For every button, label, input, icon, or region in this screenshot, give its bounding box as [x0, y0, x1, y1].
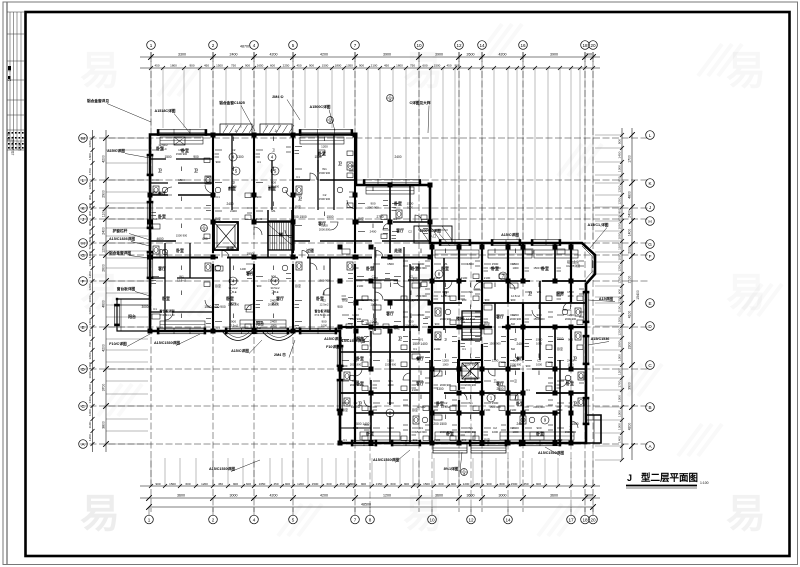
facade window mullion ticks: [174, 129, 546, 446]
svg-text:M1: M1: [419, 426, 423, 430]
svg-text:600: 600: [438, 482, 443, 486]
svg-text:12: 12: [456, 43, 462, 48]
svg-text:1350: 1350: [376, 482, 383, 486]
svg-text:1200: 1200: [618, 296, 622, 303]
svg-text:卧室: 卧室: [215, 283, 221, 288]
svg-text:卫: 卫: [298, 196, 302, 201]
svg-text:工程负责: 工程负责: [18, 141, 22, 151]
svg-text:3900: 3900: [383, 53, 391, 57]
svg-text:1500 900: 1500 900: [176, 234, 188, 238]
svg-text:8: 8: [369, 517, 372, 522]
svg-text:12.5m2: 12.5m2: [177, 279, 186, 283]
horizontal axis grid lines: [80, 138, 648, 444]
entry porch block B top: [414, 226, 452, 243]
svg-text:1500: 1500: [178, 178, 185, 182]
svg-text:600: 600: [185, 482, 190, 486]
svg-text:C2: C2: [444, 401, 448, 405]
svg-text:900: 900: [216, 160, 221, 164]
svg-text:2100: 2100: [628, 276, 632, 284]
svg-text:4800: 4800: [628, 191, 632, 199]
svg-text:900: 900: [485, 298, 490, 302]
svg-text:2M4 ⑪: 2M4 ⑪: [274, 352, 286, 357]
svg-text:1500: 1500: [169, 482, 176, 486]
svg-text:梯: 梯: [279, 232, 283, 237]
svg-text:C2: C2: [493, 426, 497, 430]
svg-text:4600: 4600: [102, 300, 106, 308]
svg-text:600: 600: [326, 482, 331, 486]
svg-text:A15/C1530详图: A15/C1530详图: [538, 450, 564, 455]
svg-text:C2: C2: [408, 230, 412, 234]
svg-text:W1: W1: [388, 379, 393, 383]
svg-text:450: 450: [296, 64, 301, 68]
svg-text:3900: 3900: [435, 53, 443, 57]
svg-text:上: 上: [234, 128, 237, 133]
svg-text:C1: C1: [393, 217, 397, 221]
svg-text:200 1500: 200 1500: [293, 215, 307, 219]
interior walls block B horizontal: [340, 281, 586, 428]
svg-text:M1: M1: [443, 262, 447, 266]
svg-text:A15/C1530详图: A15/C1530详图: [209, 466, 235, 471]
svg-text:450: 450: [273, 482, 278, 486]
svg-text:1500 900: 1500 900: [319, 197, 331, 201]
title block table: [7, 12, 25, 156]
svg-text:12.5m2: 12.5m2: [229, 279, 238, 283]
svg-text:1000: 1000: [618, 222, 622, 229]
top facade windows block A: [157, 124, 421, 186]
svg-text:卧室: 卧室: [366, 266, 374, 271]
svg-text:W1: W1: [468, 426, 473, 430]
svg-text:3600: 3600: [177, 494, 185, 498]
right lower bump room: [586, 415, 601, 443]
svg-text:1000: 1000: [536, 342, 542, 346]
svg-text:3600: 3600: [435, 494, 443, 498]
svg-text:900: 900: [536, 313, 541, 317]
svg-text:1000: 1000: [568, 294, 574, 298]
built-in counters and wardrobes: [160, 137, 578, 440]
svg-text:H: H: [81, 241, 84, 246]
svg-text:2000,900: 2000,900: [350, 363, 362, 367]
svg-text:2: 2: [212, 517, 215, 522]
elevator block A: [214, 222, 238, 250]
svg-text:600: 600: [270, 64, 275, 68]
svg-text:易: 易: [726, 492, 766, 536]
stair core block A: [268, 221, 294, 250]
svg-text:1000: 1000: [618, 253, 622, 260]
svg-text:铝合金窗C1825: 铝合金窗C1825: [219, 100, 245, 105]
svg-text:14: 14: [479, 43, 485, 48]
svg-text:8%1详图: 8%1详图: [444, 466, 459, 471]
svg-text:2000,900: 2000,900: [228, 303, 240, 307]
svg-text:2M4 ①: 2M4 ①: [272, 94, 284, 99]
svg-text:C1: C1: [526, 388, 530, 392]
svg-text:1400: 1400: [628, 229, 632, 237]
svg-text:4: 4: [253, 43, 256, 48]
svg-text:12.5m2: 12.5m2: [441, 405, 450, 409]
svg-text:1200: 1200: [88, 140, 92, 147]
svg-text:450: 450: [384, 64, 389, 68]
svg-text:1500: 1500: [571, 422, 578, 426]
svg-text:过道: 过道: [306, 248, 314, 253]
svg-text:900: 900: [558, 438, 563, 442]
svg-text:1200: 1200: [383, 494, 391, 498]
svg-text:1100: 1100: [88, 421, 92, 428]
svg-text:1100: 1100: [102, 210, 106, 217]
svg-text:300: 300: [586, 53, 592, 57]
svg-text:3800: 3800: [102, 421, 106, 429]
svg-text:A1518C详图: A1518C详图: [155, 108, 176, 113]
svg-text:M2: M2: [296, 326, 300, 330]
svg-text:1300: 1300: [618, 165, 622, 172]
svg-text:1500 1400 900: 1500 1400 900: [204, 305, 225, 309]
svg-text:1500 900: 1500 900: [565, 430, 577, 434]
svg-text:卧室: 卧室: [215, 216, 221, 221]
svg-text:C1825详图: C1825详图: [566, 264, 580, 268]
svg-text:1000: 1000: [492, 430, 498, 434]
svg-text:2900: 2900: [102, 190, 106, 198]
svg-text:1000: 1000: [443, 363, 449, 367]
svg-text:卧室: 卧室: [342, 297, 348, 302]
svg-text:2400: 2400: [270, 299, 277, 303]
svg-text:M1: M1: [271, 209, 275, 213]
svg-text:C1: C1: [296, 175, 300, 179]
svg-text:C2: C2: [569, 401, 573, 405]
svg-text:C1: C1: [216, 195, 220, 199]
side facade windows block B: [337, 291, 590, 425]
svg-text:1500: 1500: [314, 155, 321, 159]
svg-text:M2: M2: [257, 326, 261, 330]
svg-text:900: 900: [513, 359, 518, 363]
svg-text:1500: 1500: [352, 379, 359, 383]
svg-text:1500 900: 1500 900: [489, 266, 501, 270]
svg-text:1000: 1000: [88, 251, 92, 258]
svg-text:1200: 1200: [567, 313, 574, 317]
svg-text:1500: 1500: [492, 401, 499, 405]
svg-text:1000: 1000: [618, 232, 622, 239]
svg-text:M2: M2: [511, 322, 515, 326]
svg-text:3600: 3600: [550, 494, 558, 498]
svg-text:1300: 1300: [618, 395, 622, 402]
svg-text:4200: 4200: [320, 494, 328, 498]
svg-text:卫: 卫: [272, 148, 275, 152]
svg-text:1500 900: 1500 900: [465, 363, 477, 367]
svg-text:卫: 卫: [569, 426, 572, 430]
svg-text:1300: 1300: [88, 259, 92, 266]
svg-text:1500 900: 1500 900: [385, 363, 397, 367]
svg-text:48700: 48700: [240, 45, 250, 49]
svg-text:图: 图: [8, 69, 12, 72]
svg-text:900: 900: [88, 221, 92, 226]
svg-text:900: 900: [454, 64, 459, 68]
svg-text:1300: 1300: [88, 153, 92, 160]
svg-text:卧室: 卧室: [158, 214, 166, 219]
svg-text:2250: 2250: [283, 64, 290, 68]
svg-text:G: G: [648, 242, 652, 247]
svg-text:450: 450: [204, 64, 209, 68]
svg-text:16: 16: [520, 43, 526, 48]
svg-text:3700: 3700: [102, 384, 106, 392]
svg-text:M2: M2: [511, 347, 515, 351]
svg-text:900: 900: [343, 364, 348, 368]
interior walls block A horizontal: [150, 159, 430, 312]
svg-text:900: 900: [408, 320, 413, 324]
svg-text:1400: 1400: [618, 436, 622, 443]
svg-text:900: 900: [451, 482, 456, 486]
svg-text:卧室: 卧室: [295, 283, 301, 288]
svg-text:W1: W1: [537, 290, 542, 294]
svg-text:1650: 1650: [257, 64, 264, 68]
svg-text:餐厅: 餐厅: [157, 191, 166, 196]
annotation leader notes: [87, 94, 615, 472]
svg-text:1200: 1200: [387, 426, 394, 430]
svg-text:12: 12: [468, 517, 474, 522]
svg-text:型二层平面图: 型二层平面图: [641, 472, 698, 484]
svg-text:900: 900: [88, 211, 92, 216]
svg-text:30.5m2: 30.5m2: [271, 286, 280, 290]
svg-text:600: 600: [202, 237, 208, 241]
svg-text:600: 600: [246, 482, 251, 486]
interior walls block A vertical: [158, 134, 419, 332]
svg-text:3000: 3000: [499, 494, 507, 498]
svg-text:48500: 48500: [361, 503, 371, 507]
svg-text:31.2m2: 31.2m2: [229, 286, 238, 290]
svg-text:800: 800: [618, 176, 622, 181]
svg-text:750: 750: [410, 64, 415, 68]
svg-text:450: 450: [523, 482, 528, 486]
svg-text:1500: 1500: [326, 215, 333, 219]
svg-text:750: 750: [231, 64, 236, 68]
svg-text:1000: 1000: [371, 303, 377, 307]
svg-text:1500: 1500: [387, 359, 394, 363]
svg-text:900: 900: [309, 64, 314, 68]
left facade windows block A: [114, 154, 153, 326]
svg-text:900: 900: [245, 64, 250, 68]
svg-text:2400: 2400: [516, 342, 523, 346]
svg-text:1500 900: 1500 900: [415, 294, 427, 298]
svg-text:1200: 1200: [442, 359, 449, 363]
svg-text:1500: 1500: [407, 202, 414, 206]
svg-text:1000: 1000: [407, 206, 413, 210]
svg-text:卧室: 卧室: [536, 431, 544, 436]
svg-text:14: 14: [505, 517, 511, 522]
svg-text:1800: 1800: [396, 64, 403, 68]
svg-text:900: 900: [462, 438, 467, 442]
svg-text:450: 450: [218, 482, 223, 486]
svg-text:1500: 1500: [511, 482, 518, 486]
svg-text:F10/C详图: F10/C详图: [109, 341, 127, 346]
svg-text:F: F: [649, 254, 652, 259]
svg-text:1500: 1500: [418, 313, 425, 317]
svg-text:3900: 3900: [628, 382, 632, 390]
svg-text:C1: C1: [343, 438, 347, 442]
svg-text:450: 450: [475, 482, 480, 486]
svg-text:1500: 1500: [387, 401, 394, 405]
svg-text:卧室: 卧室: [358, 216, 364, 221]
svg-text:2400: 2400: [628, 210, 632, 218]
svg-text:1500 900: 1500 900: [319, 171, 331, 175]
left dimension lines: [88, 130, 148, 452]
svg-text:1200: 1200: [88, 352, 92, 359]
svg-text:1500: 1500: [423, 482, 430, 486]
svg-text:1000: 1000: [88, 409, 92, 416]
svg-text:客厅: 客厅: [395, 228, 404, 233]
svg-text:卫: 卫: [232, 181, 235, 185]
svg-text:2100: 2100: [434, 276, 441, 280]
svg-text:1200: 1200: [618, 185, 622, 192]
svg-text:W1: W1: [419, 379, 424, 383]
svg-text:1800: 1800: [178, 148, 185, 152]
svg-text:12.5m2: 12.5m2: [320, 303, 329, 307]
living room annotation: [159, 267, 329, 317]
svg-text:600: 600: [618, 289, 622, 294]
svg-text:A15/C详图: A15/C详图: [107, 148, 125, 153]
svg-text:2400: 2400: [230, 209, 237, 213]
svg-text:2100: 2100: [434, 347, 441, 351]
svg-text:900: 900: [370, 202, 375, 206]
svg-text:号: 号: [8, 79, 12, 82]
bottom facade windows block B: [351, 440, 561, 447]
svg-text:J: J: [649, 205, 651, 210]
interior dimension text: [141, 155, 578, 426]
svg-text:1800: 1800: [348, 482, 355, 486]
svg-text:A15/C1530详图: A15/C1530详图: [373, 457, 399, 462]
title strip left line: [6, 3, 8, 565]
svg-text:1300: 1300: [618, 354, 622, 361]
svg-text:1650: 1650: [259, 482, 266, 486]
svg-text:3000: 3000: [230, 494, 238, 498]
svg-text:1100: 1100: [618, 305, 622, 312]
svg-text:M: M: [81, 136, 85, 141]
svg-text:12.5m2: 12.5m2: [351, 405, 360, 409]
svg-text:12.5m2: 12.5m2: [511, 294, 520, 298]
svg-text:4200: 4200: [320, 53, 328, 57]
left balcony bump block A: [117, 299, 150, 331]
svg-text:900: 900: [468, 338, 473, 342]
svg-text:1500 900: 1500 900: [489, 342, 501, 346]
svg-text:1000: 1000: [88, 295, 92, 302]
svg-text:1200: 1200: [618, 328, 622, 335]
svg-text:1300: 1300: [436, 387, 443, 391]
svg-text:900: 900: [536, 426, 541, 430]
svg-text:1200: 1200: [492, 359, 499, 363]
svg-text:1200: 1200: [618, 368, 622, 375]
svg-text:10: 10: [429, 517, 435, 522]
svg-text:J: J: [627, 473, 632, 483]
svg-text:1000: 1000: [513, 430, 519, 434]
svg-text:A15/C1,详图: A15/C1,详图: [588, 222, 609, 227]
svg-text:2600: 2600: [467, 53, 475, 57]
svg-text:卫: 卫: [338, 161, 342, 166]
svg-text:900: 900: [189, 64, 194, 68]
svg-text:1000: 1000: [568, 363, 574, 367]
svg-text:1200: 1200: [297, 482, 304, 486]
svg-text:1200: 1200: [370, 320, 377, 324]
svg-text:900: 900: [435, 322, 440, 326]
svg-text:4200: 4200: [270, 53, 278, 57]
svg-text:900: 900: [361, 482, 366, 486]
svg-text:易: 易: [403, 492, 443, 536]
svg-text:卧室: 卧室: [557, 346, 563, 351]
svg-text:G: G: [81, 253, 85, 258]
svg-text:W1: W1: [179, 275, 184, 279]
svg-text:1500: 1500: [312, 482, 319, 486]
svg-text:M1: M1: [353, 338, 357, 342]
svg-text:1000: 1000: [388, 383, 394, 387]
svg-text:入口: 入口: [430, 234, 436, 238]
svg-text:三B-E: 三B-E: [229, 290, 236, 294]
svg-text:1200: 1200: [512, 313, 519, 317]
svg-text:600: 600: [618, 215, 622, 220]
svg-text:走道: 走道: [393, 248, 402, 253]
elevator block B: [458, 360, 482, 382]
svg-text:10: 10: [416, 43, 422, 48]
svg-text:900: 900: [536, 482, 541, 486]
svg-text:450: 450: [339, 482, 344, 486]
svg-text:W1: W1: [468, 401, 473, 405]
svg-text:3300: 3300: [178, 53, 186, 57]
svg-text:800: 800: [618, 208, 622, 213]
svg-text:2000,900: 2000,900: [319, 228, 331, 232]
svg-text:卧室: 卧室: [516, 401, 524, 406]
svg-text:900: 900: [404, 482, 409, 486]
svg-text:C1: C1: [462, 347, 466, 351]
svg-text:900: 900: [271, 181, 276, 185]
svg-text:1100: 1100: [88, 384, 92, 391]
svg-text:C2: C2: [537, 359, 541, 363]
svg-text:600: 600: [88, 203, 92, 208]
svg-text:900: 900: [321, 320, 326, 324]
svg-text:1200: 1200: [321, 224, 328, 228]
watermark pattern: [80, 24, 782, 536]
svg-text:卧室: 卧室: [176, 248, 184, 253]
svg-text:15400: 15400: [636, 290, 640, 300]
svg-text:900: 900: [88, 229, 92, 234]
svg-text:12.5m2: 12.5m2: [441, 294, 450, 298]
svg-text:2600: 2600: [102, 264, 106, 272]
svg-text:W1: W1: [468, 290, 473, 294]
svg-text:900: 900: [353, 426, 358, 430]
top facade windows block B: [439, 239, 561, 246]
svg-text:7500: 7500: [556, 337, 563, 341]
svg-text:C1: C1: [216, 326, 220, 330]
interior detail marks: [152, 137, 585, 443]
svg-text:2400: 2400: [512, 426, 519, 430]
svg-text:5000: 5000: [585, 494, 593, 498]
svg-text:2: 2: [212, 43, 215, 48]
svg-text:12.5m2: 12.5m2: [229, 324, 238, 328]
svg-text:900: 900: [359, 64, 364, 68]
svg-text:1700: 1700: [618, 380, 622, 387]
svg-text:20: 20: [590, 517, 596, 522]
svg-text:7: 7: [354, 517, 357, 522]
svg-text:2700: 2700: [376, 215, 383, 219]
svg-text:1200: 1200: [618, 276, 622, 283]
svg-text:卧室: 卧室: [295, 204, 301, 209]
svg-text:2100: 2100: [510, 408, 517, 412]
svg-text:800: 800: [88, 237, 92, 242]
svg-text:3000: 3000: [141, 305, 148, 309]
svg-text:1500 900: 1500 900: [415, 266, 427, 270]
svg-text:1800: 1800: [335, 64, 342, 68]
svg-text:易: 易: [80, 49, 120, 93]
svg-text:1000: 1000: [271, 324, 277, 328]
svg-text:1500 900: 1500 900: [176, 152, 188, 156]
svg-text:窗台板详图: 窗台板详图: [117, 286, 136, 291]
svg-text:18: 18: [582, 43, 588, 48]
svg-text:卫: 卫: [573, 401, 577, 406]
svg-text:900: 900: [511, 298, 516, 302]
svg-text:审定审核校对设计: 审定审核校对设计: [11, 136, 15, 156]
svg-text:2400: 2400: [226, 202, 233, 206]
